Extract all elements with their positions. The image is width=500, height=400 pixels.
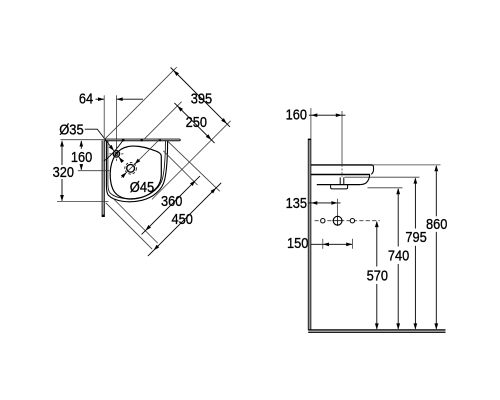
svg-text:Ø45: Ø45	[130, 180, 154, 196]
svg-text:64: 64	[79, 92, 93, 108]
svg-text:860: 860	[426, 217, 447, 233]
svg-text:570: 570	[367, 268, 388, 284]
svg-text:395: 395	[191, 92, 212, 108]
svg-text:160: 160	[286, 107, 307, 123]
svg-text:795: 795	[405, 230, 426, 246]
svg-text:450: 450	[172, 212, 193, 228]
svg-text:320: 320	[53, 165, 74, 181]
svg-text:135: 135	[286, 196, 307, 212]
svg-text:160: 160	[71, 150, 92, 166]
svg-text:250: 250	[186, 115, 207, 131]
svg-text:150: 150	[287, 236, 308, 252]
svg-text:Ø35: Ø35	[59, 123, 83, 139]
svg-text:360: 360	[161, 194, 182, 210]
svg-text:740: 740	[388, 248, 409, 264]
